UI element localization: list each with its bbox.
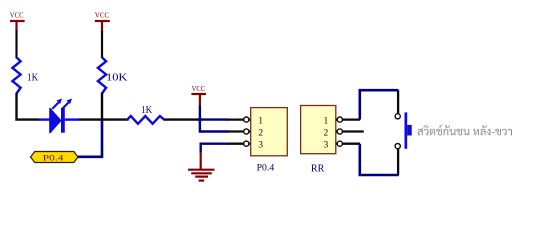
wire (VCC3 down to pin1 wire, navy) [199,106,201,120]
wire (junction to R3, black) [102,118,129,120]
svg-text:VCC: VCC [95,11,109,20]
switch S1 pushbutton [395,90,412,175]
resistor R3 1K (horizontal zigzag) [127,105,164,124]
wire (VCC1 to R1 top pin, black) [15,30,17,58]
wire (to connector pin 1, navy) [200,118,229,120]
junction (VCC3 on pin1 net) [198,117,202,121]
svg-text:1K: 1K [27,73,39,84]
svg-text:P0.4: P0.4 [257,163,275,174]
svg-text:10K: 10K [106,73,128,84]
svg-text:VCC: VCC [10,11,24,20]
wire (LED cathode to junction, black) [79,118,103,120]
pin stubs (connector RR, black) [336,120,364,144]
wire (R2 bottom to junction, black) [101,93,103,121]
wire (junction down to net label, navy) [78,120,102,157]
connector U1 P0.4 (yellow box) [251,108,288,156]
svg-text:P0.4: P0.4 [43,153,64,162]
wire (R3 to VCC junction, black) [164,118,200,120]
pin stubs (connector P0.4, black) [228,120,252,144]
wire (RR pin1 up and over to switch, navy) [360,90,399,119]
LED D1 [39,99,80,133]
ground symbol [188,152,215,181]
power VCC symbol (second, for R2) [95,11,110,33]
wire (VCC2 to R2 top pin, black) [101,31,103,58]
wire (VCC node down and right to pin 2, navy) [200,120,229,132]
power VCC symbol (third, above connector) [191,84,206,106]
wire (R1 bottom to LED anode, black L) [17,93,40,120]
wire (RR pin3 down and over to switch, navy) [360,144,399,175]
connector U2 RR (yellow box) [301,106,336,154]
resistor R2 10K (vertical zigzag) [98,57,128,93]
net label P0.4 (yellow flag) [31,152,79,163]
resistor R1 1K (vertical zigzag) [12,57,38,93]
svg-text:2: 2 [258,128,263,139]
svg-text:1: 1 [258,115,263,126]
pin circles (connector RR) [337,117,342,146]
svg-text:3: 3 [258,140,263,151]
svg-text:2: 2 [324,128,329,139]
svg-text:1: 1 [324,115,329,126]
svg-text:1K: 1K [141,105,153,116]
pin circles (connector P0.4) [244,117,249,146]
wire (pin 3 to ground, navy) [201,144,229,153]
power VCC symbol (left, for R1) [10,11,25,32]
label Thai text (switch name) [418,125,513,136]
svg-text:VCC: VCC [192,84,206,93]
svg-text:3: 3 [324,140,329,151]
svg-text:RR: RR [311,164,325,175]
